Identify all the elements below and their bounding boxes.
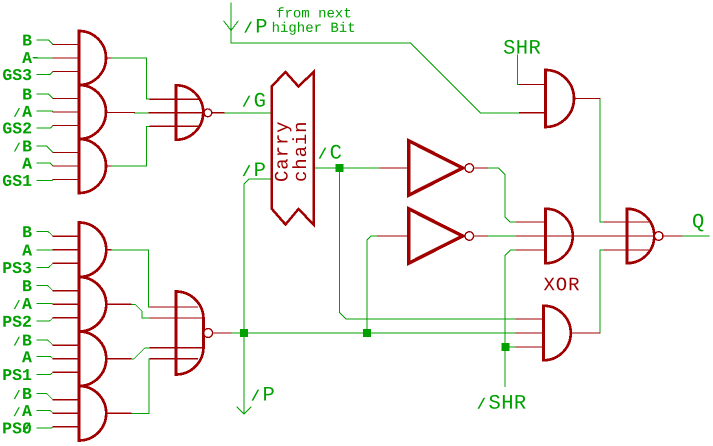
wire nand1 out /G to carry chain	[224, 112, 272, 114]
bubble final	[654, 232, 663, 241]
wire Q out	[682, 235, 709, 237]
svg-text:GS3: GS3	[2, 66, 32, 85]
wire inv2 out to XOR gate	[488, 235, 517, 237]
and gate b2	[79, 277, 106, 332]
nand gate final	[627, 209, 654, 264]
and gate b3	[79, 332, 106, 387]
wire SHR label stub	[518, 55, 520, 85]
wire and_b3 out to nand2	[131, 348, 150, 359]
junction /P node J0	[240, 329, 248, 337]
svg-text:A: A	[22, 242, 32, 261]
wire /C net carry to inverter U1	[314, 167, 381, 169]
arrow from next higher bit	[224, 21, 238, 31]
wire and_t2 out to nand1	[135, 112, 150, 114]
wire /P to carry chain	[244, 179, 272, 333]
symbols-group	[79, 31, 654, 441]
wire B2 stub	[37, 94, 53, 99]
pins inv2	[378, 235, 488, 237]
svg-text:chain: chain	[290, 121, 312, 183]
pins bottom gate	[516, 319, 600, 347]
wire /SHR stub	[505, 347, 516, 386]
wire /C down to bottom AND gate	[339, 168, 516, 319]
wire bottom gate out up to final gate	[600, 250, 604, 333]
wire B1 stub	[37, 40, 53, 45]
wire Ap4bar stub	[37, 411, 53, 414]
label PS0 slash-zero mark	[23, 423, 29, 431]
bubble nand1	[204, 109, 212, 117]
wire Ap3 stub	[37, 357, 53, 359]
svg-text:A: A	[22, 348, 32, 367]
svg-text:higher Bit: higher Bit	[272, 21, 356, 37]
pins and_b1	[53, 236, 111, 263]
and gate t1	[79, 31, 106, 85]
bubble inv2	[465, 232, 474, 241]
pins xor gate	[516, 222, 627, 250]
wire GS1 stub	[37, 179, 53, 182]
svg-text:B: B	[22, 223, 32, 242]
pins and_t1	[53, 45, 111, 72]
bubble nand2	[204, 329, 213, 338]
svg-text:PS0: PS0	[2, 419, 32, 438]
wire Ap1 stub	[37, 249, 53, 251]
svg-text:GS2: GS2	[2, 119, 32, 138]
svg-text:Q: Q	[692, 211, 705, 234]
wire A1 stub	[34, 57, 54, 60]
wire Bp3bar stub	[37, 340, 53, 345]
svg-text:GS1: GS1	[2, 172, 32, 191]
svg-text:A: A	[22, 155, 32, 174]
wire Bp4bar stub	[37, 393, 53, 399]
wire GS2 stub	[37, 126, 53, 128]
wire Ap2bar stub	[37, 302, 53, 305]
and gate SHR	[546, 70, 575, 127]
pins-group	[53, 45, 682, 427]
junction J1	[363, 329, 371, 337]
wire /P arrow stub down	[243, 333, 245, 414]
inverter U4	[409, 141, 463, 196]
wire and_b1 out to nand2	[111, 250, 150, 307]
pins and_b4	[53, 400, 131, 427]
svg-text:PS3: PS3	[2, 259, 32, 278]
pins shr gate	[520, 85, 601, 113]
nand gate U2	[176, 85, 203, 140]
svg-text:SHR: SHR	[503, 38, 541, 61]
wire and_b4 out to nand2	[131, 359, 150, 414]
wire PS0 stub	[37, 427, 53, 428]
wire Bp1 stub	[37, 232, 53, 237]
wire A3 stub	[37, 163, 53, 166]
pins nand1	[150, 99, 224, 126]
wire /P from next higher bit	[231, 3, 520, 113]
and gate t2	[79, 85, 106, 139]
wire A2bar stub	[37, 110, 53, 113]
carry chain block	[272, 72, 314, 225]
svg-text:/C: /C	[318, 142, 342, 165]
pins and_b2	[53, 291, 131, 318]
wire and_b2 out to nand2	[131, 304, 150, 318]
junction /C node	[335, 164, 343, 172]
wire SHR gate out to final gate	[600, 99, 604, 223]
svg-text:/G: /G	[242, 90, 266, 113]
wire PS3 stub	[37, 263, 53, 267]
bubble inv1	[465, 164, 474, 173]
svg-text:B: B	[22, 277, 32, 296]
junction /SHR node J2	[502, 343, 510, 351]
wire and_t3 out to nand1	[111, 126, 150, 166]
pins and_t3	[53, 153, 111, 180]
svg-text:/P: /P	[242, 160, 266, 183]
wire B3bar stub	[37, 146, 53, 153]
and gate t3	[79, 139, 106, 193]
nand gate U3 4-input	[176, 292, 204, 375]
pins nand2	[150, 307, 231, 359]
svg-text:/SHR: /SHR	[477, 393, 527, 416]
wire PS1 stub	[37, 372, 53, 374]
junctions-group	[240, 164, 510, 351]
wire /SHR up to XOR bottom input	[505, 250, 516, 347]
svg-text:/P: /P	[244, 16, 268, 39]
wire GS3 stub	[37, 72, 53, 75]
svg-text:B: B	[22, 32, 32, 51]
wire J1 up to inv2 input	[367, 236, 378, 333]
pins inv1	[380, 167, 488, 169]
wire /P long net	[231, 332, 516, 334]
wire inv1 out to XOR gate	[488, 168, 517, 222]
wire and_t1 out to nand1	[111, 58, 150, 99]
svg-text:B: B	[22, 86, 32, 105]
wire PS2 stub	[37, 318, 53, 321]
pins final gate	[604, 222, 682, 250]
pins and_b3	[53, 345, 131, 372]
svg-text:PS1: PS1	[2, 366, 32, 385]
svg-text:XOR: XOR	[543, 274, 580, 296]
pins and_t2	[53, 99, 176, 126]
and gate b1	[79, 223, 106, 278]
arrow /P down	[237, 407, 251, 414]
bubbles-group	[204, 109, 663, 338]
and gate b4	[79, 386, 106, 441]
svg-text:/P: /P	[251, 384, 275, 407]
wire Bp2 stub	[37, 286, 53, 291]
inverter U5	[409, 209, 463, 264]
svg-text:PS2: PS2	[2, 313, 32, 332]
and gate XOR	[546, 209, 573, 264]
and gate bottom	[544, 306, 571, 361]
